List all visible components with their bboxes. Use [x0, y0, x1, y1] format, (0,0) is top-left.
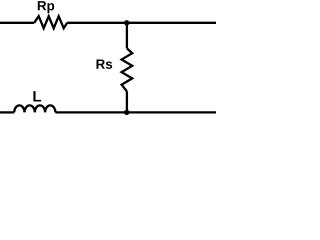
wire: bottom rail right segment — [55, 111, 216, 113]
node: top junction — [124, 20, 129, 25]
inductor L — [14, 105, 55, 112]
wire: top rail left segment — [0, 22, 34, 24]
wire: bottom rail left segment — [0, 111, 14, 113]
resistor Rp — [34, 16, 67, 28]
wire: Rs top lead — [126, 23, 128, 49]
label Rp — [38, 1, 54, 13]
label Rs — [96, 59, 112, 68]
label L — [33, 91, 41, 101]
wire: top rail right segment — [67, 22, 216, 24]
node: bottom junction — [124, 110, 129, 115]
resistor Rs — [122, 48, 133, 91]
wire: Rs bottom lead — [126, 91, 128, 112]
